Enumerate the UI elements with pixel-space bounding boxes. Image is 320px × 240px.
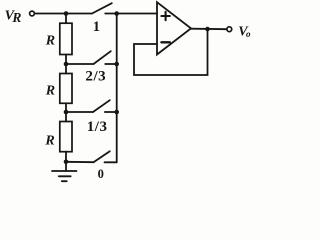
wire: bus to op-amp noninverting input — [117, 13, 157, 15]
wire: node A to switch S1 pivot — [66, 13, 92, 15]
resistor R1 — [60, 23, 72, 54]
bus wire (switch outputs) — [116, 14, 118, 163]
terminal VR — [30, 11, 35, 16]
svg-text:R: R — [45, 34, 55, 49]
svg-text:R: R — [44, 133, 54, 148]
op-amp U1 — [157, 2, 191, 54]
svg-text:Vo: Vo — [238, 24, 251, 39]
node: bus at S3 contact — [114, 110, 119, 115]
switch S1 fixed contact — [105, 13, 117, 15]
switch S3 fixed contact — [105, 111, 117, 113]
node: bus at S1 contact — [114, 11, 119, 16]
wire: node C to switch S3 pivot — [66, 111, 93, 113]
node D — [64, 160, 69, 165]
svg-text:2/3: 2/3 — [85, 69, 106, 85]
switch S1 blade — [92, 3, 112, 13]
wire: R3 bottom to node D — [65, 152, 67, 162]
wire: node D to ground — [65, 162, 67, 171]
wire: node C to R3 top — [65, 112, 67, 122]
wire: VR terminal to node A — [35, 13, 66, 15]
svg-text:0: 0 — [98, 167, 104, 181]
switch S0 blade — [94, 151, 110, 162]
switch S2 fixed contact — [105, 63, 117, 65]
switch S2 blade — [94, 51, 111, 64]
node A — [64, 11, 69, 16]
wire: node B to R2 top — [65, 64, 67, 74]
node C — [64, 110, 69, 115]
wire: node B to switch S2 pivot — [66, 63, 94, 65]
svg-text:R: R — [45, 83, 55, 98]
wire: op-amp output to terminal Vo — [191, 28, 227, 31]
terminal Vo — [227, 27, 232, 32]
resistor R3 — [60, 122, 72, 152]
svg-text:VR: VR — [5, 8, 22, 25]
ground — [52, 171, 77, 181]
node: bus at S2 contact — [114, 62, 119, 67]
svg-text:1: 1 — [93, 19, 100, 35]
node B — [64, 62, 69, 67]
svg-text:1/3: 1/3 — [87, 119, 108, 135]
switch S3 blade — [93, 100, 110, 112]
wire: R1 bottom to node B — [65, 55, 67, 65]
wire: node A to R1 top — [65, 14, 67, 24]
switch S0 fixed contact — [105, 161, 117, 163]
wire: node D to switch S0 pivot — [66, 161, 94, 163]
node: feedback tap on output — [205, 27, 210, 32]
wire: feedback from output to inverting input — [134, 29, 208, 75]
wire: R2 bottom to node C — [65, 103, 67, 112]
resistor R2 — [60, 74, 72, 104]
